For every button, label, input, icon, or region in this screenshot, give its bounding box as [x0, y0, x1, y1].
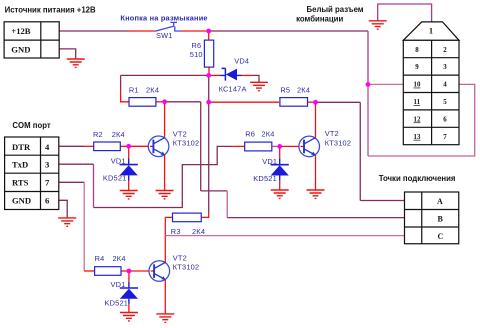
white combination connector [403, 22, 459, 145]
svg-text:2К4: 2К4 [297, 85, 310, 94]
resistor R1 [129, 98, 156, 107]
wire red segment switch to junction [182, 30, 209, 32]
wire TxD riser down [93, 164, 95, 207]
wire R1 riser lower [121, 90, 129, 102]
wire COM GND to ground [59, 200, 67, 218]
wire +12V red segment before switch [129, 30, 155, 32]
wire line C to box [165, 235, 404, 237]
wire line B to box [227, 217, 404, 219]
svg-text:VD1: VD1 [111, 157, 126, 166]
svg-text:2К4: 2К4 [113, 254, 126, 263]
wire VD1 middle anode to ground [279, 181, 281, 190]
ground VD1 middle [271, 190, 289, 198]
svg-text:10: 10 [414, 82, 421, 89]
node junction base VT2 first [126, 144, 131, 149]
wire R6 bottom to node [208, 67, 210, 75]
svg-text:TxD: TxD [12, 160, 28, 170]
ground connector top [369, 21, 387, 29]
wire junction to base VT2 bottom [129, 270, 154, 272]
wire R1 riser upper [120, 75, 122, 90]
svg-text:6: 6 [443, 116, 447, 123]
svg-text:VD1: VD1 [262, 157, 277, 166]
power supply connector table [4, 22, 59, 58]
wire node to connector pin 10 [368, 83, 403, 85]
wire VD1 first anode to ground [128, 181, 130, 191]
wire +12V junction to right vertical [209, 30, 368, 32]
svg-text:R4: R4 [95, 254, 105, 263]
svg-text:SW1: SW1 [156, 31, 173, 40]
svg-text:R5: R5 [280, 85, 290, 94]
wire +12V from power block to switch (dark) [59, 30, 129, 32]
svg-text:KD521: KD521 [103, 174, 127, 183]
svg-text:5: 5 [443, 99, 447, 106]
wire VD1 bottom cathode vertical [128, 271, 130, 282]
svg-text:1: 1 [429, 27, 433, 36]
diode VD1 middle KD521 [271, 159, 289, 181]
node junction R5 collector [313, 100, 318, 105]
wire U path under connector to pin 4 [367, 84, 369, 156]
node junction connector pins 10-4 [366, 82, 371, 87]
svg-text:RTS: RTS [12, 178, 29, 188]
transistor VT2 first [148, 136, 169, 157]
wire zener vertical lower [208, 102, 210, 213]
node junction R5 row [206, 100, 211, 105]
wire R2 right to junction [120, 145, 128, 147]
wire junction to base VT2 middle [280, 145, 304, 147]
svg-text:С: С [438, 232, 444, 241]
svg-text:2К4: 2К4 [261, 129, 274, 138]
wire zener node row left part [121, 74, 209, 76]
wire R4 right to junction [121, 270, 129, 272]
svg-text:Источник питания +12В: Источник питания +12В [5, 5, 96, 14]
svg-text:3: 3 [443, 64, 447, 71]
svg-text:8: 8 [415, 47, 419, 54]
wire R5 row from node [209, 101, 279, 103]
svg-text:комбинации: комбинации [296, 15, 343, 24]
wire power GND to ground [59, 49, 75, 59]
diode VD4 zener KC147A [220, 68, 242, 80]
wire VD1 bottom anode to ground [128, 304, 130, 313]
svg-text:7: 7 [443, 134, 447, 141]
svg-text:6: 6 [45, 196, 50, 206]
svg-text:VD4: VD4 [234, 56, 249, 65]
svg-text:4: 4 [45, 142, 50, 152]
wire collector VT2 first [164, 102, 166, 138]
node junction top wire R6 [206, 29, 211, 34]
svg-text:VT2: VT2 [325, 129, 339, 138]
svg-text:KD521: KD521 [105, 298, 129, 307]
connection points box [405, 192, 459, 244]
ground COM GND [58, 218, 76, 226]
wire emitter VT2 first to ground [164, 155, 166, 191]
switch SW1 [155, 22, 182, 31]
svg-text:GND: GND [12, 196, 31, 206]
svg-text:2К4: 2К4 [192, 227, 205, 236]
wire R5 right to junction [307, 101, 316, 103]
wire line A horizontal top [316, 101, 361, 103]
wire DTR row dark [59, 145, 86, 147]
wire TxD bottom jog [94, 146, 233, 207]
wire RTS row [59, 181, 84, 183]
wire DTR row red to R2 [85, 145, 93, 147]
svg-text:3: 3 [45, 160, 49, 170]
wire vertical down to connector node [367, 31, 369, 84]
node junction zener row [206, 73, 211, 78]
diode VD1 first KD521 [120, 159, 138, 181]
svg-text:13: 13 [414, 134, 421, 141]
wire R3 left elbow [165, 216, 172, 218]
resistor R6 second [245, 142, 272, 151]
wire connector pin1 to top ground [378, 4, 432, 22]
svg-text:11: 11 [414, 99, 421, 106]
svg-text:COM порт: COM порт [12, 121, 50, 130]
wire B riser down [226, 191, 228, 218]
svg-text:4: 4 [443, 82, 447, 89]
resistor R3 [173, 213, 202, 222]
svg-text:KD521: KD521 [253, 174, 277, 183]
svg-text:2К4: 2К4 [146, 85, 159, 94]
svg-text:9: 9 [415, 64, 419, 71]
svg-text:DTR: DTR [12, 142, 31, 152]
COM port connector table [5, 137, 59, 210]
wire vertical link x=200.7 [200, 102, 202, 191]
svg-text:+12В: +12В [11, 26, 30, 36]
wire collector VT2 bottom riser [164, 217, 166, 262]
wire junction to base VT2 first [129, 145, 154, 147]
resistor R2 [94, 142, 121, 151]
svg-text:КТ3102: КТ3102 [325, 139, 351, 148]
resistor R4 [95, 267, 121, 276]
ground emitter VT2 bottom [156, 314, 174, 322]
svg-text:12: 12 [414, 116, 421, 123]
svg-text:R6: R6 [245, 129, 255, 138]
svg-text:VT2: VT2 [173, 130, 187, 139]
wire collector junction to down link [165, 101, 201, 103]
svg-text:R2: R2 [93, 130, 103, 139]
svg-text:Белый разъем: Белый разъем [307, 5, 364, 14]
resistor R5 [280, 98, 308, 107]
wire R6 second right to junction [272, 145, 280, 147]
svg-text:КС147А: КС147А [219, 85, 247, 94]
wire line A to box [360, 200, 404, 202]
ground VD1 bottom [120, 313, 138, 321]
svg-text:R6: R6 [192, 41, 202, 50]
node junction R1 collector [162, 99, 167, 104]
svg-text:R1: R1 [129, 85, 139, 94]
wire R1 right to collector junction [154, 101, 164, 103]
ground power GND [67, 59, 85, 67]
svg-text:Точки подключения: Точки подключения [379, 174, 456, 183]
wire zener vertical red tail [201, 213, 208, 217]
svg-text:510: 510 [190, 50, 203, 59]
svg-text:7: 7 [45, 178, 50, 188]
wire line A vertical [359, 102, 361, 200]
wire VD1 middle cathode vertical [279, 146, 281, 158]
ground emitter VT2 middle [307, 190, 325, 198]
node junction base VT2 middle [277, 144, 282, 149]
ground near VD4 [250, 82, 268, 90]
svg-text:VT2: VT2 [173, 254, 187, 263]
ground emitter VT2 first [156, 191, 174, 199]
ground VD1 first [120, 191, 138, 199]
svg-text:GND: GND [11, 44, 30, 54]
svg-text:VD1: VD1 [111, 280, 126, 289]
node junction base VT2 bottom [126, 269, 131, 274]
wire VD1 first cathode vertical [128, 146, 130, 158]
wire TxD row [59, 163, 94, 165]
wire node to VD4 cathode [209, 74, 220, 76]
wire collector VT2 middle [315, 102, 317, 138]
wire emitter VT2 middle to ground [315, 155, 317, 190]
svg-text:В: В [438, 214, 444, 223]
wire RTS to R4 [84, 270, 94, 272]
transistor VT2 bottom [149, 261, 170, 282]
svg-text:КТ3102: КТ3102 [173, 139, 199, 148]
wire emitter VT2 bottom to ground [164, 280, 166, 314]
svg-text:Кнопка на размыкание: Кнопка на размыкание [120, 13, 207, 22]
resistor R6 510 vertical [204, 40, 213, 67]
transistor VT2 middle [299, 136, 320, 157]
svg-text:R3: R3 [171, 227, 181, 236]
svg-text:2: 2 [443, 47, 447, 54]
wire jog to B riser [201, 190, 228, 192]
wire VD4 anode right [242, 74, 254, 76]
wire zener vertical upper [208, 75, 210, 102]
wire TxD red tail to R6 [232, 145, 244, 147]
wire RTS riser down [83, 182, 85, 271]
wire VD4 anode elbow to ground [253, 75, 259, 82]
wire junction to R6 top [208, 31, 210, 40]
svg-text:А: А [437, 197, 443, 206]
svg-text:КТ3102: КТ3102 [173, 263, 199, 272]
svg-text:2К4: 2К4 [112, 130, 125, 139]
diode VD1 bottom KD521 [120, 282, 138, 304]
